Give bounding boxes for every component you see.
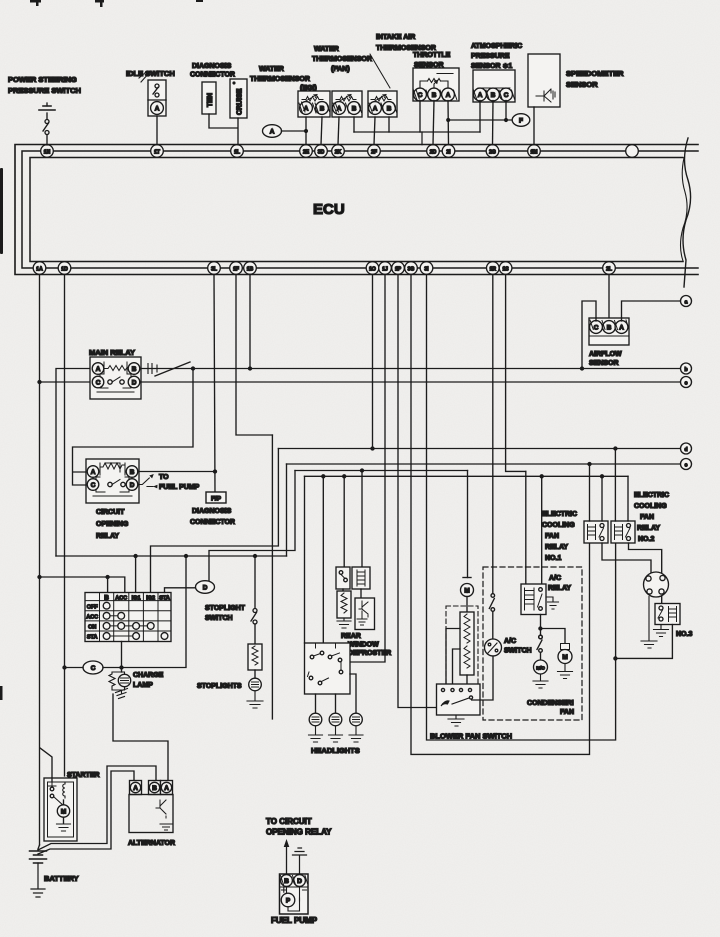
wire 3L to F/P connector: [214, 275, 215, 494]
AC relay to MC chain: [537, 615, 542, 661]
svg-text:RELAY: RELAY: [96, 533, 119, 540]
wire throttle B to 2D: [433, 101, 434, 145]
charge lamp net line: [65, 556, 187, 669]
defroster transistor box: [355, 589, 375, 630]
wire 1J to headlight switch: [350, 275, 385, 663]
charge lamp ground: [116, 689, 128, 699]
svg-text:B: B: [320, 105, 325, 112]
svg-text:DIAGNOSIS: DIAGNOSIS: [192, 63, 232, 70]
relay no3 ground: [654, 625, 669, 637]
stoplight switch wire: [254, 556, 256, 608]
main relay switch blade: [155, 362, 190, 376]
svg-text:AIRFLOW: AIRFLOW: [589, 351, 622, 358]
svg-text:B: B: [432, 92, 437, 99]
wire 1B to net b: [249, 275, 251, 369]
wire STA column to D ellipse: [165, 588, 197, 593]
svg-text:C: C: [594, 324, 599, 331]
svg-text:ECU: ECU: [313, 201, 345, 218]
svg-text:NO.1: NO.1: [545, 555, 561, 562]
wire 1R to AC switch: [492, 275, 494, 594]
node F ellipse: [512, 114, 530, 127]
bus line y476 accessory loads: [305, 475, 629, 478]
svg-text:RELAY: RELAY: [637, 525, 660, 532]
connector 3G: [405, 262, 418, 275]
wire bus to relay2 contact: [627, 476, 629, 521]
electric cooling fan relay no1 label: [542, 511, 577, 562]
speedometer sensor: [528, 54, 560, 107]
svg-text:1N: 1N: [44, 149, 51, 155]
svg-text:PRESSURE: PRESSURE: [471, 53, 510, 60]
svg-text:TO CIRCUIT: TO CIRCUIT: [266, 817, 312, 826]
headlight lamp 2: [329, 713, 343, 742]
svg-text:B: B: [152, 785, 157, 792]
fuel pump feed arrow: [284, 839, 290, 874]
blower fan switch box: [437, 684, 481, 715]
svg-text:1T: 1T: [154, 149, 160, 155]
net d line: [278, 447, 680, 450]
fuel pump connector: [280, 874, 309, 914]
svg-text:FAN: FAN: [560, 709, 574, 716]
svg-text:1F: 1F: [233, 266, 239, 272]
wire intake B to sensor ground line: [388, 117, 390, 132]
svg-text:1M: 1M: [531, 149, 538, 155]
svg-text:CIRCUIT: CIRCUIT: [96, 509, 125, 516]
svg-text:B: B: [284, 878, 289, 885]
headlight lamp 3: [349, 713, 363, 742]
wire EGI A to 2E: [305, 117, 307, 145]
scan artifact left edge: [0, 0, 203, 700]
hatch throttle row: [414, 90, 457, 101]
fuel pump ground stub: [293, 848, 307, 874]
svg-text:THERMOSENSOR: THERMOSENSOR: [312, 56, 372, 63]
wire airflow C hook to net b: [582, 301, 596, 369]
svg-text:1B: 1B: [247, 266, 254, 272]
intake air thermosensor label: [370, 34, 436, 88]
to fuel pump label: [159, 474, 200, 491]
wire speedometer to 1M: [533, 107, 535, 145]
net e line: [287, 463, 681, 466]
svg-text:FUEL PUMP: FUEL PUMP: [159, 484, 200, 491]
wire d line to IG2 feed: [151, 449, 279, 593]
wire TEN/CRUISE to 1L: [209, 114, 238, 145]
connector 1O: [366, 262, 379, 275]
blower motor: [461, 578, 474, 613]
wire EGI B to 3D: [321, 117, 322, 145]
svg-text:CONNECTOR: CONNECTOR: [190, 519, 235, 526]
rear window defroster label: [341, 633, 391, 657]
wire atm B to 2G: [492, 101, 495, 145]
node d: [681, 443, 692, 454]
svg-text:FAN: FAN: [640, 514, 654, 521]
starter coil: [63, 782, 65, 798]
connector 1B: [244, 262, 257, 275]
wire d line to relay2 coil: [614, 449, 616, 522]
atmospheric pressure sensor label: [471, 43, 522, 70]
svg-text:THERMOSENSOR: THERMOSENSOR: [250, 76, 310, 83]
headlight switch box: [305, 643, 351, 694]
svg-text:SENSOR: SENSOR: [566, 80, 598, 89]
svg-text:SWITCH: SWITCH: [205, 615, 233, 622]
wire to defroster relay coil: [361, 471, 363, 568]
node C ellipse: [83, 661, 103, 674]
svg-text:FAN: FAN: [545, 533, 559, 540]
connector 1T: [151, 145, 164, 158]
stoplight resistor: [248, 644, 262, 670]
throttle sensor: [413, 68, 459, 101]
connector 2D: [427, 145, 440, 158]
svg-text:B: B: [104, 595, 109, 602]
defroster relay switch box: [336, 567, 350, 589]
svg-text:D: D: [203, 585, 208, 592]
charge lamp drop from ACC column: [121, 642, 123, 673]
svg-text:IG1: IG1: [132, 595, 141, 601]
hatch atm row: [474, 90, 515, 100]
starter label: [67, 772, 100, 779]
TEN connector: [202, 82, 216, 114]
blower switch ground: [448, 715, 464, 726]
svg-text:C: C: [91, 665, 96, 672]
charge lamp bulb: [118, 674, 130, 686]
svg-text:ACC: ACC: [115, 595, 127, 601]
wire throttle A to 2I with F branch: [447, 101, 450, 145]
wire e line to accessory feed: [286, 464, 288, 556]
headlights label: [311, 746, 360, 755]
hatch fuel pump row: [281, 876, 308, 885]
svg-text:M: M: [61, 809, 66, 816]
svg-text:STOPLIGHT: STOPLIGHT: [205, 605, 246, 612]
COR D to fuel pump arrow: [138, 474, 158, 488]
svg-text:3D: 3D: [318, 149, 325, 155]
svg-text:LAMP: LAMP: [133, 682, 153, 689]
charge lamp wire to alternator A: [113, 694, 168, 781]
cooling fan relay no3: [655, 604, 680, 625]
starter box: [44, 778, 77, 841]
svg-text:RELAY: RELAY: [548, 585, 571, 592]
wire 1A to battery: [38, 275, 41, 846]
blower fan switch label: [430, 732, 512, 741]
battery label: [44, 874, 79, 883]
svg-text:COOLING: COOLING: [542, 522, 575, 529]
wire FAN B to sensor ground line: [353, 117, 355, 132]
circuit opening relay: [86, 459, 139, 503]
svg-text:d: d: [684, 447, 687, 453]
airflow sensor: [589, 318, 629, 345]
connector 1J: [379, 262, 392, 275]
svg-text:B: B: [607, 324, 612, 331]
wire 1D to starter coil: [63, 275, 66, 777]
connector 1S: [499, 262, 512, 275]
ignition grid contacts: [103, 602, 168, 639]
connector 1D: [58, 262, 71, 275]
hatch FAN row: [333, 103, 362, 114]
svg-text:C: C: [91, 482, 96, 489]
svg-text:CONNECTOR: CONNECTOR: [190, 72, 235, 79]
cooling fan connector: [644, 572, 669, 597]
AC thermo contacts: [489, 594, 494, 639]
svg-text:HEADLIGHTS: HEADLIGHTS: [311, 746, 360, 755]
svg-text:REAR: REAR: [341, 633, 361, 640]
svg-text:1A: 1A: [36, 266, 43, 272]
node e: [681, 459, 692, 470]
power steering pressure switch label: [8, 75, 81, 95]
wire to defroster relay switch: [343, 476, 345, 567]
ignition switch feed B column: [40, 576, 125, 593]
bus corner down to D ellipse feed: [209, 471, 295, 582]
svg-text:WATER: WATER: [259, 66, 284, 73]
svg-text:M/C: M/C: [536, 665, 545, 670]
connector 3D: [315, 145, 328, 158]
svg-text:CRUISE: CRUISE: [237, 88, 244, 115]
CRUISE connector: [230, 79, 247, 118]
node D ellipse: [196, 581, 215, 594]
svg-text:1D: 1D: [61, 266, 68, 272]
svg-text:OPENING: OPENING: [96, 521, 129, 528]
svg-text:(FAN): (FAN): [331, 66, 350, 73]
battery symbol: [30, 845, 47, 897]
starter motor M: [57, 800, 69, 823]
water thermosensor EGI label: [250, 66, 317, 92]
node A ellipse: [263, 125, 282, 138]
speedometer sensor label: [566, 69, 624, 89]
headlight lamp 1: [309, 713, 323, 742]
svg-text:A/C: A/C: [549, 575, 561, 582]
svg-text:1L: 1L: [234, 149, 240, 155]
starter ground: [57, 824, 71, 831]
wire 1F with jog: [236, 275, 272, 436]
electric cooling fan relay no2 label: [634, 492, 669, 543]
starter blade: [54, 797, 64, 806]
svg-text:B: B: [387, 105, 392, 112]
accessory feed line y556: [56, 555, 287, 558]
defroster relay coil box: [352, 567, 370, 589]
atmospheric pressure sensor: [473, 70, 515, 102]
connector 2K: [332, 145, 345, 158]
svg-text:ON: ON: [88, 625, 96, 631]
svg-text:A: A: [91, 469, 96, 476]
svg-text:BATTERY: BATTERY: [44, 874, 79, 883]
connector 1P: [392, 262, 405, 275]
battery feed to alternator B: [38, 766, 156, 850]
wire bus to headlight switch left: [304, 476, 306, 643]
connector 1A: [33, 262, 46, 275]
hatch intake row: [369, 103, 397, 113]
alternator internal transistor: [156, 800, 166, 818]
wire main relay B branch down to COR feed: [73, 367, 195, 485]
svg-text:THROTTLE: THROTTLE: [413, 52, 451, 59]
svg-text:B: B: [132, 366, 137, 373]
svg-text:CHARGE: CHARGE: [133, 672, 164, 679]
svg-text:b: b: [684, 367, 687, 373]
svg-text:F/P: F/P: [211, 496, 222, 503]
defroster resistor ground: [337, 618, 351, 628]
blower resistor dashed box: [446, 606, 478, 684]
connector 1N: [41, 145, 54, 158]
MC clutch: [533, 660, 548, 688]
svg-text:a: a: [685, 300, 688, 306]
svg-text:2E: 2E: [303, 149, 310, 155]
svg-text:IG2: IG2: [146, 595, 155, 601]
wire 2L to airflow sensor B: [608, 275, 610, 319]
wire 3I loop around blower: [427, 275, 616, 741]
svg-text:D: D: [130, 482, 135, 489]
wire bus to headlight switch mid: [322, 476, 324, 643]
blower resistor: [460, 612, 474, 675]
water thermosensor FAN label: [312, 46, 372, 73]
cooling fan relay no2: [611, 521, 635, 543]
connector 1F: [230, 262, 243, 275]
sensor ground line: [354, 132, 480, 145]
connector 1M: [528, 145, 541, 158]
wire idle switch to 1T: [156, 116, 158, 145]
svg-text:A: A: [270, 129, 275, 136]
power steering pressure switch: [39, 103, 55, 145]
AC switch to blower switch wire: [472, 656, 493, 700]
connector 2I: [442, 145, 455, 158]
svg-text:TO: TO: [159, 474, 169, 481]
AC relay label: [548, 575, 571, 592]
wire 1P to blower switch: [398, 275, 437, 708]
ignition grid header labels: [104, 595, 170, 602]
cooling fan relay no1: [584, 521, 608, 543]
ignition switch grid: [85, 593, 171, 642]
wire e line to relay1 coil: [589, 464, 591, 521]
svg-text:A: A: [164, 785, 169, 792]
svg-text:OPENING RELAY: OPENING RELAY: [266, 828, 332, 837]
svg-text:2D: 2D: [430, 149, 437, 155]
alternator label: [128, 840, 175, 847]
starter solenoid contacts: [48, 782, 56, 798]
svg-text:1P: 1P: [395, 266, 402, 272]
wire blower motor feed: [467, 471, 469, 578]
alternator box: [129, 795, 173, 833]
svg-text:COOLING: COOLING: [634, 503, 667, 510]
svg-text:3I: 3I: [424, 266, 429, 272]
wire AC relay coil feed: [525, 471, 527, 584]
svg-text:M: M: [562, 654, 567, 661]
svg-text:SENSOR: SENSOR: [589, 360, 619, 367]
wire fan connector to relay no3: [661, 597, 663, 604]
svg-text:2I: 2I: [446, 149, 451, 155]
water thermosensor EGI: [298, 91, 330, 117]
ECU middle box (connector rail): [22, 151, 698, 268]
connector blank top: [626, 145, 639, 158]
svg-text:A: A: [133, 785, 138, 792]
svg-text:c: c: [685, 381, 688, 387]
svg-text:A: A: [478, 92, 483, 99]
svg-text:P: P: [286, 898, 291, 905]
idle switch: [139, 72, 166, 116]
circuit opening relay label: [96, 509, 129, 540]
svg-text:C: C: [504, 92, 509, 99]
svg-text:ELECTRIC: ELECTRIC: [634, 492, 669, 499]
ECU right wavy edge: [681, 138, 691, 287]
svg-text:PRESSURE SWITCH: PRESSURE SWITCH: [8, 86, 81, 95]
svg-text:DIAGNOSIS: DIAGNOSIS: [192, 508, 232, 515]
wire relay1 contact to fan connector: [602, 543, 651, 573]
headlight wires down: [316, 674, 357, 713]
svg-text:SENSOR ∗1: SENSOR ∗1: [471, 63, 512, 70]
node a: [681, 296, 692, 307]
svg-text:1R: 1R: [490, 266, 497, 272]
svg-text:F: F: [519, 118, 523, 125]
wire relay2 contact to fan connector: [629, 543, 662, 573]
wire throttle C to ground line: [419, 101, 421, 133]
connector 2L: [603, 262, 616, 275]
svg-text:STA: STA: [87, 635, 98, 641]
svg-text:NO.3: NO.3: [676, 631, 692, 638]
svg-text:MAIN RELAY: MAIN RELAY: [89, 348, 135, 357]
main relay label: [89, 348, 135, 357]
intake air thermosensor: [368, 91, 397, 117]
svg-text:1J: 1J: [382, 266, 388, 272]
condenser fan dashed box: [483, 567, 582, 720]
svg-text:RELAY: RELAY: [545, 544, 568, 551]
svg-text:IDLE SWITCH: IDLE SWITCH: [126, 69, 175, 78]
condenser fan label: [527, 700, 574, 716]
diagnosis connector label: [190, 63, 235, 79]
svg-text:2L: 2L: [606, 266, 612, 272]
AC switch label: [504, 638, 532, 655]
main relay B capacitor symbol: [140, 364, 157, 374]
svg-text:M: M: [464, 588, 469, 595]
main relay: [90, 357, 141, 399]
wire atm A to ground line: [479, 101, 481, 133]
connector 1L: [231, 145, 244, 158]
svg-text:A: A: [373, 105, 378, 112]
svg-text:INTAKE AIR: INTAKE AIR: [376, 34, 415, 41]
F/P diagnosis connector: [206, 492, 226, 503]
svg-text:2K: 2K: [335, 149, 342, 155]
svg-text:ATMOSPHERIC: ATMOSPHERIC: [471, 43, 522, 50]
svg-text:A: A: [446, 92, 451, 99]
svg-text:SWITCH: SWITCH: [504, 648, 532, 655]
connector 2G: [486, 145, 499, 158]
ECU label: [313, 201, 345, 218]
svg-text:ALTERNATOR: ALTERNATOR: [128, 840, 175, 847]
node b: [681, 363, 692, 374]
starter S wire: [40, 748, 52, 782]
wire 1O to net d: [372, 275, 374, 449]
wire stub below jog: [271, 435, 273, 719]
svg-text:ACC: ACC: [86, 614, 98, 620]
svg-text:D: D: [297, 878, 302, 885]
wire intake A to 2F: [374, 117, 375, 145]
svg-text:3L: 3L: [211, 266, 217, 272]
connector 3I: [420, 262, 433, 275]
svg-text:WATER: WATER: [314, 46, 339, 53]
ignition switch feed IG1 column: [135, 556, 137, 593]
hatch airflow row: [590, 320, 629, 330]
ignition grid row labels: [86, 604, 98, 640]
stoplights ground: [247, 691, 263, 708]
svg-text:A: A: [155, 105, 160, 112]
stoplights lamp: [249, 670, 262, 691]
stoplight switch label: [205, 605, 246, 622]
connector 2E: [300, 145, 313, 158]
connector 2F: [368, 145, 381, 158]
net b line (main relay B): [140, 367, 681, 370]
headlight switch contacts: [308, 643, 343, 685]
svg-text:B: B: [130, 469, 135, 476]
svg-text:B: B: [491, 92, 496, 99]
airflow sensor label: [589, 351, 622, 367]
svg-text:C: C: [96, 379, 101, 386]
throttle sensor label: [413, 52, 451, 69]
wire bus to relay1 contact: [601, 476, 603, 521]
wire relay no3 coil return: [614, 625, 673, 660]
svg-text:A: A: [619, 324, 624, 331]
net c line (main relay D): [140, 381, 681, 383]
